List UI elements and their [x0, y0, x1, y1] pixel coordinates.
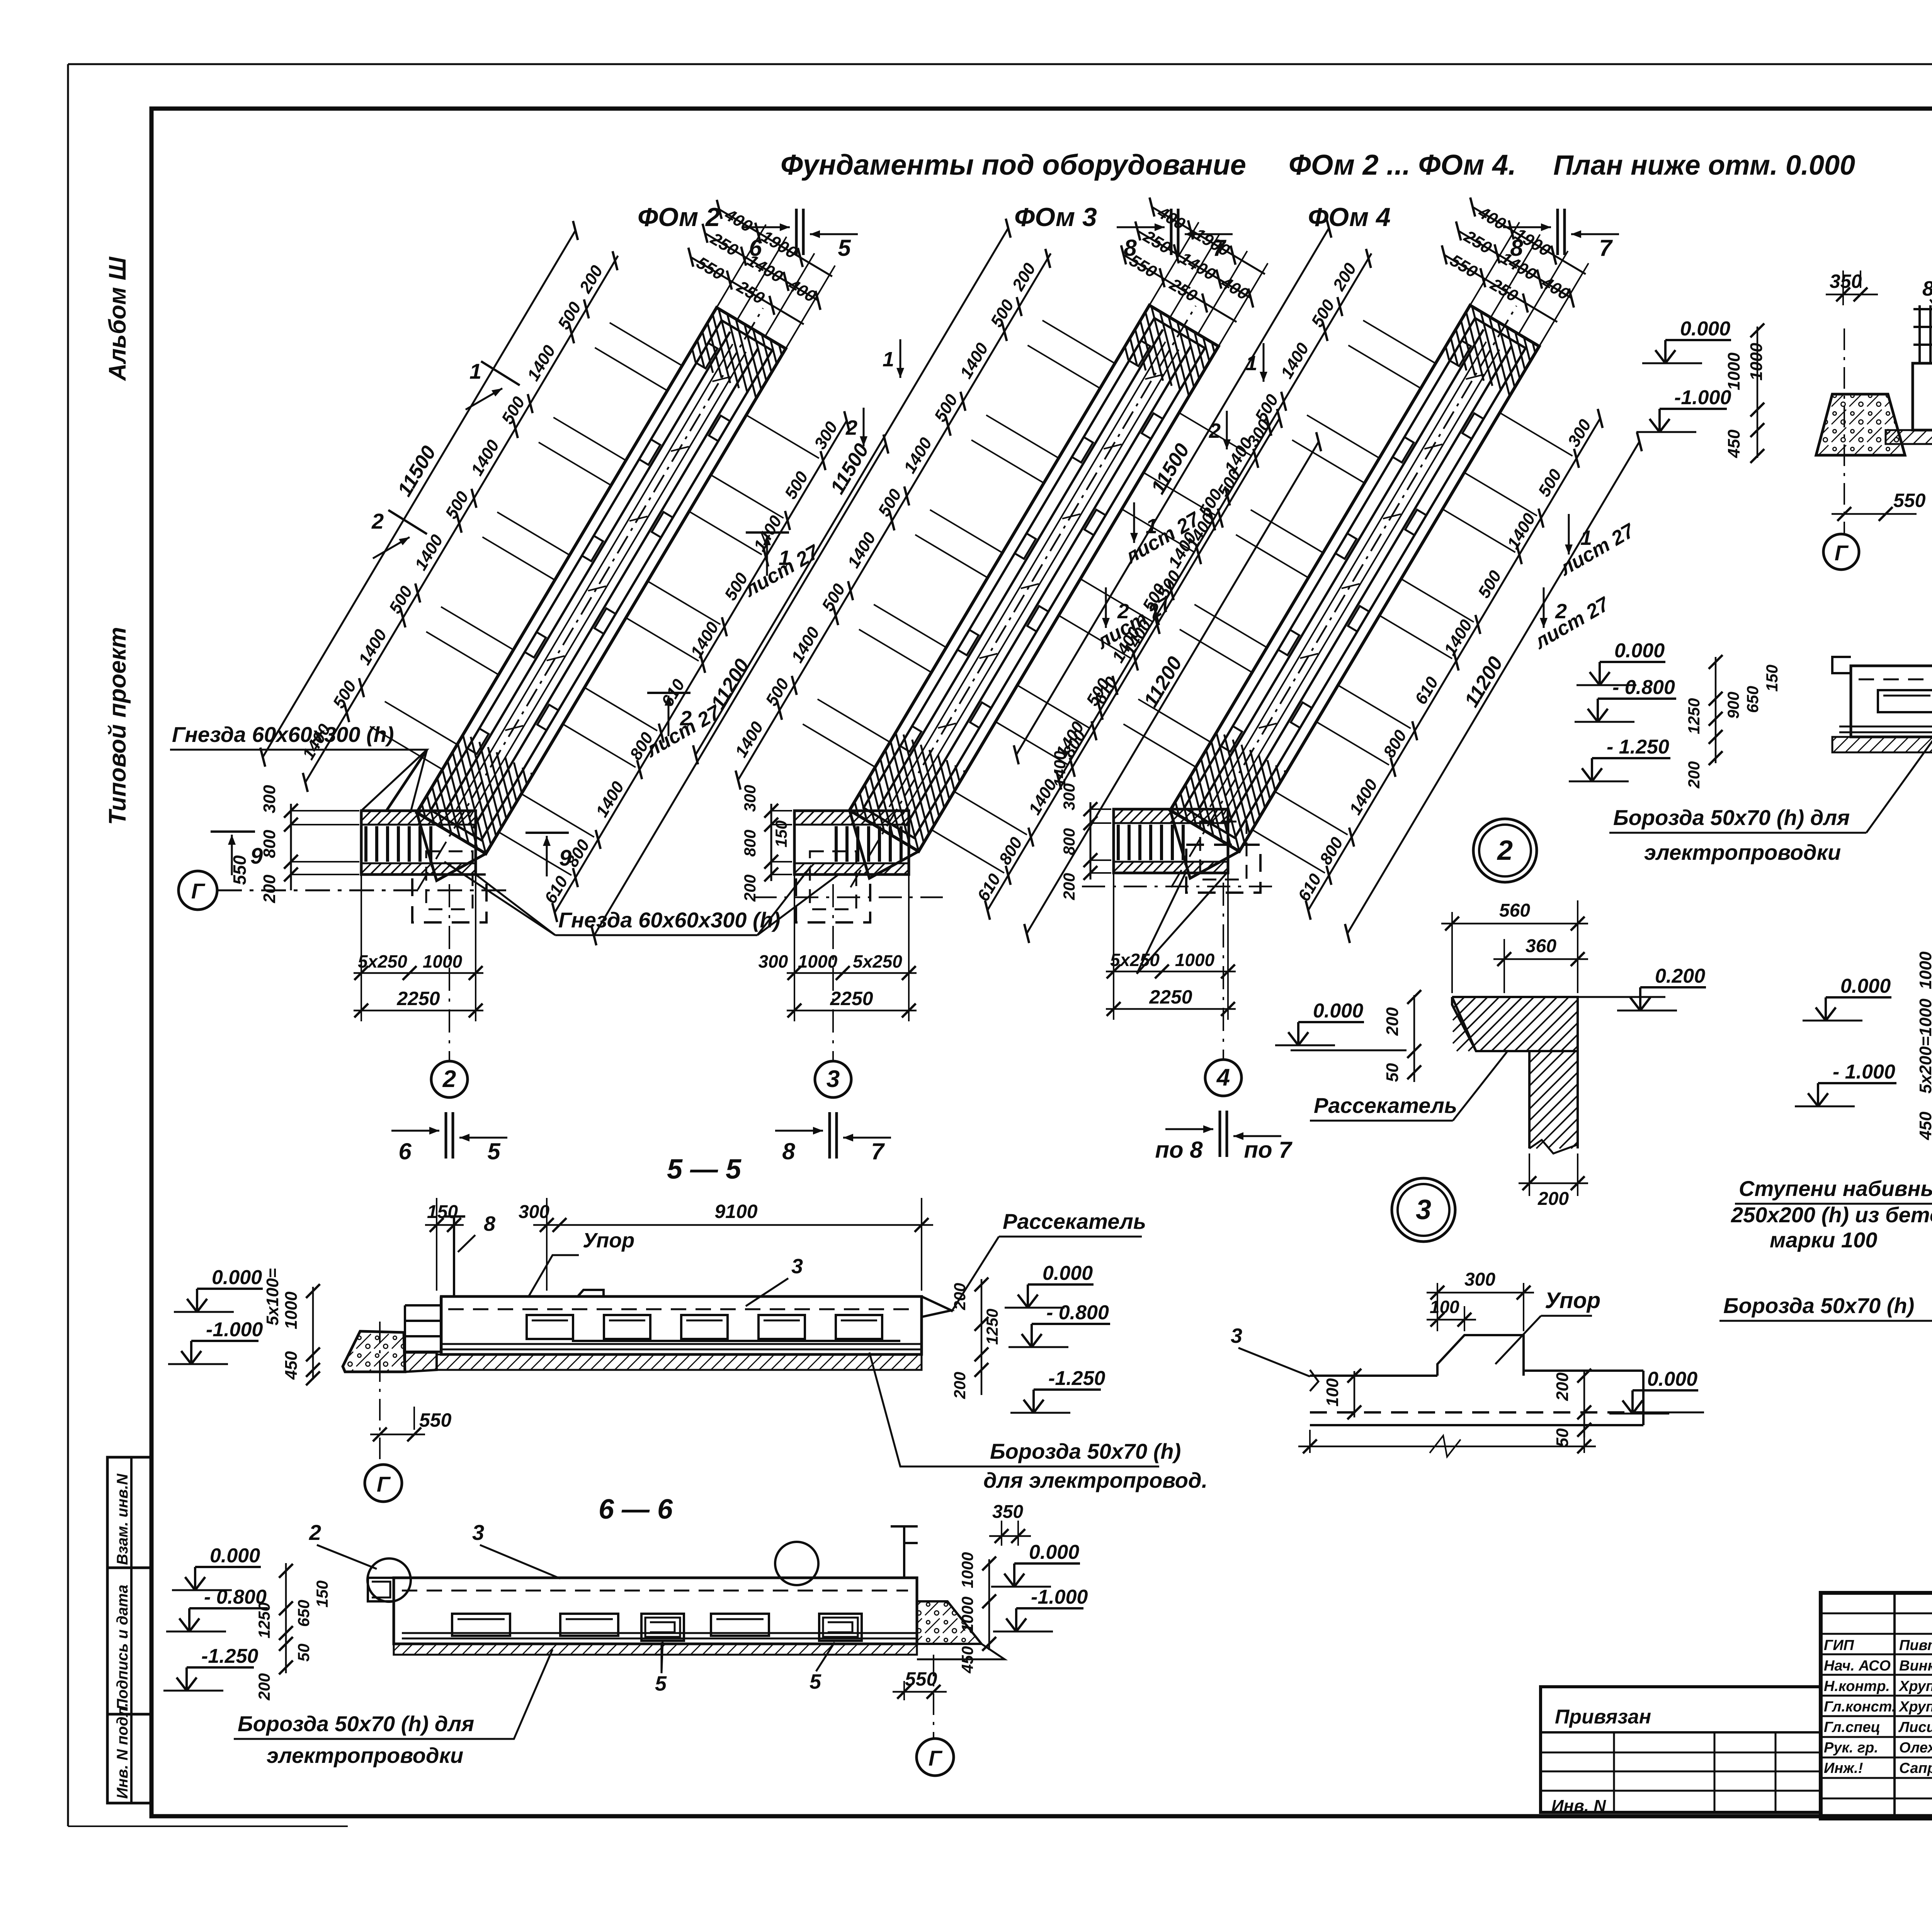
section 5-5 left dim chain [312, 1287, 314, 1380]
detail 2 bottom dim 200 [1529, 1153, 1530, 1196]
svg-text:360: 360 [1526, 936, 1556, 956]
svg-text:300: 300 [519, 1202, 549, 1222]
svg-text:-1.250: -1.250 [201, 1645, 259, 1667]
detail 2 left dims [1413, 995, 1415, 1082]
svg-text:1: 1 [883, 348, 894, 371]
section 7-7 dim 550 [1832, 513, 1917, 515]
svg-text:1000: 1000 [423, 951, 463, 971]
svg-text:марки 100: марки 100 [1770, 1228, 1877, 1252]
svg-text:100: 100 [1430, 1297, 1459, 1317]
svg-text:200: 200 [1383, 1007, 1402, 1036]
detail 3 bottom dim line [1309, 1430, 1311, 1453]
svg-text:9: 9 [559, 846, 571, 871]
svg-text:6: 6 [398, 1138, 412, 1164]
svg-text:Г: Г [191, 879, 206, 903]
svg-text:Сапрошина: Сапрошина [1899, 1760, 1932, 1776]
title block outer [1821, 1593, 1932, 1819]
svg-text:2250: 2250 [1149, 986, 1192, 1008]
svg-text:2250: 2250 [396, 988, 440, 1009]
svg-text:5: 5 [655, 1672, 667, 1695]
svg-text:электропроводки: электропроводки [1644, 840, 1841, 864]
svg-text:5x100=: 5x100= [263, 1268, 282, 1325]
section 6-6 left dim chain [285, 1563, 287, 1673]
svg-text:Борозда 50x70 (h): Борозда 50x70 (h) [1723, 1293, 1914, 1318]
section 5-5 upor block [578, 1290, 604, 1296]
dim chains left of pad ФОм4 [1090, 802, 1092, 880]
svg-text:200: 200 [1553, 1372, 1572, 1401]
section 8-8 openings [1878, 690, 1932, 712]
svg-text:ФОм 2: ФОм 2 [638, 202, 720, 232]
svg-text:1000: 1000 [1725, 352, 1743, 390]
svg-text:200: 200 [255, 1673, 273, 1701]
svg-text:Гл.спец: Гл.спец [1824, 1719, 1880, 1735]
svg-text:Фундаменты под оборудовани: Фундаменты под оборудование [781, 149, 1246, 181]
svg-text:1: 1 [1246, 352, 1257, 375]
svg-text:Лисичкин: Лисичкин [1898, 1719, 1932, 1735]
svg-text:150: 150 [427, 1202, 458, 1222]
detail 3 dims top [1437, 1283, 1438, 1331]
section mark 1 down near ФОм4 [1263, 343, 1265, 382]
svg-text:1000: 1000 [1916, 951, 1932, 989]
svg-text:1250: 1250 [983, 1309, 1001, 1345]
svg-text:0.000: 0.000 [1647, 1368, 1697, 1390]
title block signature grid [1821, 1613, 1932, 1614]
svg-text:- 0.800: - 0.800 [1612, 676, 1675, 699]
svg-text:2: 2 [309, 1520, 321, 1545]
section 6-6 bottom strip [394, 1644, 917, 1655]
svg-text:Пивторак: Пивторак [1899, 1637, 1932, 1654]
svg-text:1250: 1250 [1685, 698, 1703, 734]
section 8-8 left dim chain [1715, 657, 1717, 763]
svg-text:Альбом Ш: Альбом Ш [104, 256, 131, 381]
detail 2 stem [1528, 1051, 1531, 1148]
section 5-5 slab body [441, 1296, 922, 1354]
svg-text:Инж.!: Инж.! [1824, 1760, 1863, 1776]
section 7-7 foundation hatched strip [1886, 430, 1932, 444]
svg-text:450: 450 [958, 1646, 976, 1674]
svg-text:550: 550 [905, 1668, 937, 1690]
section mark 1 лист 27 right of plan ФОм4 [1568, 514, 1570, 555]
svg-text:0.200: 0.200 [1655, 965, 1705, 987]
svg-text:3: 3 [1231, 1324, 1242, 1347]
svg-text:Привязан: Привязан [1555, 1706, 1651, 1728]
svg-text:150: 150 [313, 1580, 331, 1608]
svg-text:650: 650 [1743, 686, 1762, 713]
detail 2 body [1452, 997, 1578, 1051]
svg-text:450: 450 [1916, 1111, 1932, 1140]
svg-text:3: 3 [827, 1066, 840, 1092]
svg-text:450: 450 [282, 1351, 301, 1380]
svg-text:800: 800 [260, 830, 279, 858]
section mark 1 лист 27 right of plan ФОм2 [766, 535, 768, 576]
svg-text:-1.000: -1.000 [1674, 386, 1731, 409]
svg-text:300: 300 [1464, 1269, 1495, 1290]
section 5-5 post 8 [453, 1216, 455, 1296]
vertical dim chain 200-800-300 left of pad ФОм2 [290, 804, 292, 890]
ФОм4 pad dimensions, axis 4, cut по8-по7 [1113, 873, 1114, 1020]
section 5-5 right dim chain [981, 1279, 983, 1395]
section 6-6 slab body [394, 1578, 917, 1644]
section 6-6 detail circle 2 [367, 1558, 411, 1602]
svg-text:План ниже отм. 0.000: План ниже отм. 0.000 [1553, 150, 1855, 181]
svg-text:Борозда 50x70 (h): Борозда 50x70 (h) [990, 1439, 1181, 1463]
svg-text:ГИП: ГИП [1824, 1637, 1854, 1654]
svg-text:Борозда 50x70 (h) для: Борозда 50x70 (h) для [1613, 805, 1850, 830]
svg-text:Г: Г [377, 1472, 391, 1496]
svg-text:9100: 9100 [714, 1201, 757, 1222]
cut symbol 8-7 top right [1556, 209, 1559, 255]
svg-text:Взам. инв.N: Взам. инв.N [114, 1473, 131, 1565]
svg-text:200: 200 [1685, 761, 1703, 789]
svg-text:0.000: 0.000 [212, 1266, 262, 1289]
svg-text:Гнезда 60x60x300 (h): Гнезда 60x60x300 (h) [172, 722, 394, 747]
section 7-7 hatched footing [1816, 394, 1905, 455]
section 6-6 left cap [368, 1578, 394, 1601]
svg-text:5: 5 [810, 1670, 821, 1693]
привязан table [1541, 1687, 1821, 1812]
svg-text:Гнезда 60x60x300 (h): Гнезда 60x60x300 (h) [558, 908, 780, 932]
svg-text:0.000: 0.000 [210, 1545, 260, 1567]
foundation plan ФОм3 strip [656, 128, 1390, 980]
svg-text:5: 5 [487, 1138, 501, 1164]
section 5-5 groove [572, 1340, 900, 1342]
svg-text:- 1.250: - 1.250 [1607, 736, 1669, 758]
svg-text:Упор: Упор [1545, 1288, 1600, 1313]
svg-text:Рассекатель: Рассекатель [1314, 1093, 1457, 1118]
detail bubble 2 [1473, 819, 1537, 882]
svg-text:8: 8 [484, 1212, 495, 1235]
section 6-6 dim 350 [1001, 1521, 1002, 1546]
svg-text:200: 200 [951, 1372, 969, 1399]
foundation plan ФОм2 strip [224, 130, 957, 983]
svg-text:1000: 1000 [958, 1597, 976, 1633]
cut symbol 6-5 top [795, 209, 798, 255]
svg-text:200: 200 [1060, 873, 1078, 900]
svg-text:300: 300 [759, 951, 788, 971]
svg-text:7: 7 [871, 1138, 885, 1164]
section 6-6 right footing [917, 1601, 981, 1644]
svg-text:0.000: 0.000 [1029, 1541, 1079, 1563]
section 7-7 left dim chain [1757, 327, 1759, 458]
svg-text:Типовой проект: Типовой проект [104, 627, 131, 825]
svg-text:Гл.конст.: Гл.конст. [1824, 1699, 1896, 1715]
section 5-5 dims 150 300 9100 [436, 1198, 437, 1291]
section 8-8 slab body [1832, 657, 1851, 673]
svg-text:-1.000: -1.000 [206, 1318, 263, 1341]
svg-text:Винклер: Винклер [1899, 1658, 1932, 1674]
svg-text:по 8: по 8 [1155, 1137, 1203, 1163]
svg-text:по 7: по 7 [1244, 1137, 1293, 1163]
svg-text:Г: Г [929, 1746, 943, 1770]
detail 2 dims [1451, 912, 1453, 993]
svg-text:1250: 1250 [255, 1603, 273, 1638]
svg-text:550: 550 [419, 1409, 452, 1431]
svg-text:550: 550 [230, 855, 250, 885]
section 7-7 railing 8 [1918, 305, 1921, 363]
svg-text:Рук. гр.: Рук. гр. [1824, 1740, 1878, 1756]
ФОм3 pad dimensions, axis 3, cut 8-7 [794, 874, 795, 1021]
svg-text:Борозда 50x70 (h) для: Борозда 50x70 (h) для [238, 1711, 474, 1736]
leader fan pad ФОм4 [1137, 871, 1186, 974]
svg-text:5: 5 [838, 235, 851, 261]
svg-text:Подпись и дата: Подпись и дата [114, 1585, 131, 1710]
svg-text:2: 2 [371, 509, 384, 533]
section 8-8 bottom strip [1832, 737, 1932, 752]
svg-text:0.000: 0.000 [1313, 1000, 1363, 1022]
section 5-5 footing with concrete [343, 1331, 405, 1372]
svg-text:1400: 1400 [1051, 751, 1069, 787]
svg-text:1000: 1000 [798, 951, 838, 971]
svg-text:1000: 1000 [958, 1552, 976, 1588]
detail 3 dim 100 left [1354, 1371, 1355, 1417]
section mark 9 near pad ФОм2 [231, 835, 233, 875]
svg-text:Инв. N подл.: Инв. N подл. [114, 1703, 131, 1799]
section 5-5 transition hatch [405, 1352, 437, 1372]
section 5-5 centreline axis Г [379, 1322, 381, 1463]
svg-text:2: 2 [1497, 835, 1513, 866]
section mark 1 down near ФОм3 [900, 339, 901, 378]
section mark 2 лист 27 right of plan ФОм4 [1543, 587, 1545, 628]
detail bubble 3 [1392, 1178, 1455, 1242]
svg-text:3: 3 [472, 1520, 484, 1545]
dim chains left of pad ФОм3 [770, 804, 772, 881]
section mark 2 left of plan ФОм2 [373, 537, 410, 558]
svg-text:200: 200 [260, 874, 279, 903]
svg-text:5 — 5: 5 — 5 [667, 1154, 742, 1185]
svg-text:50: 50 [294, 1643, 313, 1662]
svg-text:-1.000: -1.000 [1031, 1586, 1088, 1608]
section 7-7 left pedestal [1913, 363, 1932, 430]
svg-text:Хрупало: Хрупало [1898, 1699, 1932, 1715]
svg-text:- 0.800: - 0.800 [1046, 1301, 1109, 1324]
svg-text:3: 3 [1416, 1194, 1431, 1225]
section mark 2 down near ФОм3 [863, 408, 865, 446]
section 6-6 detail circle 3 [775, 1542, 818, 1585]
svg-text:8: 8 [782, 1138, 795, 1164]
section mark 2 down near ФОм4 [1226, 411, 1228, 449]
svg-text:2: 2 [442, 1066, 456, 1092]
svg-text:ФОм 2 ... ФОм 4.: ФОм 2 ... ФОм 4. [1289, 149, 1516, 181]
svg-text:1: 1 [469, 359, 481, 383]
section 6-6 right dim chain [988, 1559, 990, 1650]
section mark 2 лист 27 right of plan ФОм2 [668, 696, 670, 736]
svg-text:5x250: 5x250 [358, 951, 407, 971]
svg-text:2: 2 [845, 416, 857, 439]
svg-text:0.000: 0.000 [1680, 318, 1730, 340]
section 6-6 dim 550 axis Г [933, 1655, 934, 1738]
svg-text:2: 2 [1209, 419, 1221, 442]
ФОм2 pad dimensions, axis 2, cut 6-5 [361, 874, 362, 1021]
section mark 9 right of pad ФОм2 [546, 836, 548, 876]
section 6-6 rail post 8 [903, 1526, 905, 1578]
svg-text:ФОм 4: ФОм 4 [1308, 202, 1391, 232]
svg-text:Упор: Упор [583, 1229, 634, 1252]
svg-text:ФОм 3: ФОм 3 [1014, 202, 1097, 232]
svg-text:0.000: 0.000 [1614, 640, 1665, 662]
svg-text:3: 3 [791, 1255, 803, 1278]
section 5-5 bottom strip [437, 1354, 922, 1370]
svg-text:200: 200 [951, 1283, 969, 1310]
ФОм3 end pad with sockets [794, 811, 909, 874]
svg-text:7: 7 [1599, 235, 1613, 261]
svg-text:5x250: 5x250 [1110, 950, 1160, 970]
svg-text:Нач. АСО: Нач. АСО [1824, 1658, 1891, 1674]
svg-text:Н.контр.: Н.контр. [1824, 1678, 1890, 1694]
svg-text:Ступени набивные: Ступени набивные [1739, 1176, 1932, 1201]
section 6-6 openings [452, 1614, 510, 1636]
axis Г circle and centreline left of plan ФОм2 [179, 871, 217, 910]
svg-text:8: 8 [1922, 277, 1932, 300]
svg-text:450: 450 [1725, 429, 1743, 458]
svg-text:550: 550 [1893, 490, 1926, 511]
svg-text:6 — 6: 6 — 6 [599, 1494, 673, 1525]
svg-text:650: 650 [294, 1600, 313, 1627]
ФОм4 end pad with sockets [1114, 809, 1228, 873]
svg-text:300: 300 [260, 785, 279, 813]
svg-text:300: 300 [741, 785, 759, 812]
svg-text:100: 100 [1323, 1378, 1342, 1407]
section 5-5 razsekatel wedge [922, 1296, 951, 1317]
svg-text:50: 50 [1553, 1428, 1572, 1447]
svg-text:900: 900 [1724, 692, 1742, 719]
svg-text:250x200 (h) из бетона: 250x200 (h) из бетона [1731, 1203, 1932, 1227]
detail 3 right dims [1583, 1370, 1585, 1438]
foundation plan ФОм4 strip [977, 128, 1711, 980]
svg-text:150: 150 [1763, 665, 1781, 692]
svg-text:0.000: 0.000 [1840, 975, 1891, 997]
outer border [68, 63, 1932, 65]
svg-text:800: 800 [741, 830, 759, 857]
cut symbol 8-7 top [1170, 209, 1173, 255]
svg-text:- 1.000: - 1.000 [1833, 1061, 1895, 1083]
svg-text:5x250: 5x250 [853, 951, 902, 971]
svg-text:для электропровод.: для электропровод. [983, 1468, 1207, 1492]
svg-text:электропроводки: электропроводки [267, 1743, 463, 1768]
section 7-7 dim 350 [1842, 270, 1844, 305]
svg-text:2250: 2250 [830, 988, 873, 1009]
svg-text:1000: 1000 [282, 1291, 301, 1329]
section 5-5 openings [527, 1315, 573, 1339]
ФОм2 end pad with sockets [361, 811, 476, 874]
svg-text:1000: 1000 [1175, 950, 1215, 970]
svg-text:350: 350 [992, 1502, 1023, 1522]
svg-text:Рассекатель: Рассекатель [1003, 1209, 1146, 1233]
svg-text:200: 200 [1537, 1189, 1569, 1209]
svg-text:Хрупало: Хрупало [1898, 1678, 1932, 1694]
detail 3 slab strip [1310, 1375, 1437, 1377]
svg-text:0.000: 0.000 [1043, 1262, 1093, 1284]
svg-text:-1.250: -1.250 [1048, 1367, 1105, 1390]
svg-text:50: 50 [1383, 1063, 1402, 1082]
section mark 2 лист 27 between plans 2 and 3 [1105, 587, 1107, 628]
svg-text:5x200=1000: 5x200=1000 [1916, 999, 1932, 1094]
svg-text:560: 560 [1499, 900, 1530, 921]
svg-text:4: 4 [1216, 1064, 1230, 1091]
svg-text:Олехова: Олехова [1899, 1740, 1932, 1756]
svg-text:Г: Г [1835, 541, 1849, 565]
section 7-7 centreline and axis Г [1844, 328, 1845, 534]
section mark 1 left of plan ФОм2 [466, 388, 502, 410]
section mark 1 лист 27 between plans 2 and 3 [1133, 502, 1135, 543]
section 5-5 left ladder [404, 1305, 406, 1352]
svg-text:1000: 1000 [1747, 343, 1766, 381]
svg-text:350: 350 [1830, 270, 1862, 292]
svg-text:Инв. N: Инв. N [1551, 1797, 1606, 1815]
bottom-left margin boxes [107, 1457, 151, 1803]
svg-text:800: 800 [1060, 828, 1078, 855]
